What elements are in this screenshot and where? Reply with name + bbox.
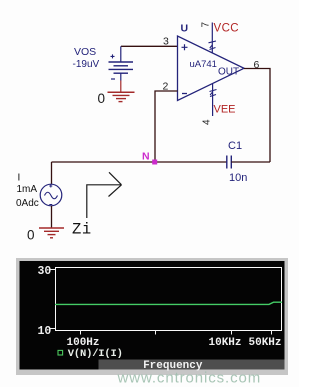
svg-text:30: 30 [38,265,52,278]
svg-text:1mA: 1mA [17,184,38,195]
svg-text:OUT: OUT [218,67,239,78]
svg-text:6: 6 [254,59,260,71]
x tick 10KHz [231,330,233,335]
legend marker [58,350,63,355]
plot axes box [56,268,282,331]
x tick 100Hz [80,330,82,335]
svg-text:10: 10 [38,325,52,338]
wire from current source to node N to capacitor [52,161,227,163]
svg-text:I: I [18,173,21,184]
svg-text:VEE: VEE [214,104,236,116]
y tick 10 [50,328,55,330]
trace V(N)/I(I) [55,302,282,304]
node N junction dot [152,160,157,165]
probe plot window frame [16,258,288,375]
ground 0 at VOS battery [108,81,135,102]
ground 0 at current source [39,228,64,238]
minus input marking [182,93,187,95]
svg-text:0Adc: 0Adc [16,198,39,209]
pin 4 power pin line (V-) [212,84,214,116]
svg-text:3: 3 [163,36,169,48]
wire from pin 2 down to node N [155,91,178,162]
svg-text:VOS: VOS [74,46,96,58]
plot black background [20,261,285,370]
x tick 1KHz [155,330,157,335]
svg-text:N: N [142,151,150,163]
svg-text:10KHz: 10KHz [209,337,242,349]
frequency axis title bar [99,360,285,370]
pin 7 power pin line (V+) [211,23,213,53]
svg-text:0: 0 [98,91,106,106]
svg-text:7: 7 [201,22,212,28]
svg-text:0: 0 [27,228,35,243]
svg-text:50KHz: 50KHz [249,337,282,349]
svg-text:uA741: uA741 [190,59,217,70]
svg-text:4: 4 [202,119,213,125]
svg-text:Zi: Zi [72,220,92,238]
op-amp U1 uA741 triangle [178,36,245,101]
svg-text:www.cntronics.com: www.cntronics.com [117,370,262,387]
plus input marking [182,44,188,50]
wire from pin 6 output down to capacitor [244,69,270,163]
battery VOS [109,46,134,80]
svg-text:-19uV: -19uV [73,59,100,70]
svg-text:V(N)/I(I): V(N)/I(I) [68,348,123,360]
y tick 30 [50,269,55,271]
svg-text:VCC: VCC [214,22,239,34]
capacitor right wire [231,161,270,163]
x tick 50KHz [271,330,273,335]
wire top from VOS battery to op-amp pin 3 [121,45,178,47]
svg-text:C1: C1 [228,140,242,152]
svg-text:100Hz: 100Hz [67,337,100,349]
Zi impedance arrow [87,172,122,218]
capacitor C1 [227,156,232,169]
svg-text:U: U [181,23,189,35]
wire current source stub [51,162,53,184]
current source I [40,184,62,206]
current source bottom wire [51,206,53,228]
svg-text:10n: 10n [229,172,247,184]
